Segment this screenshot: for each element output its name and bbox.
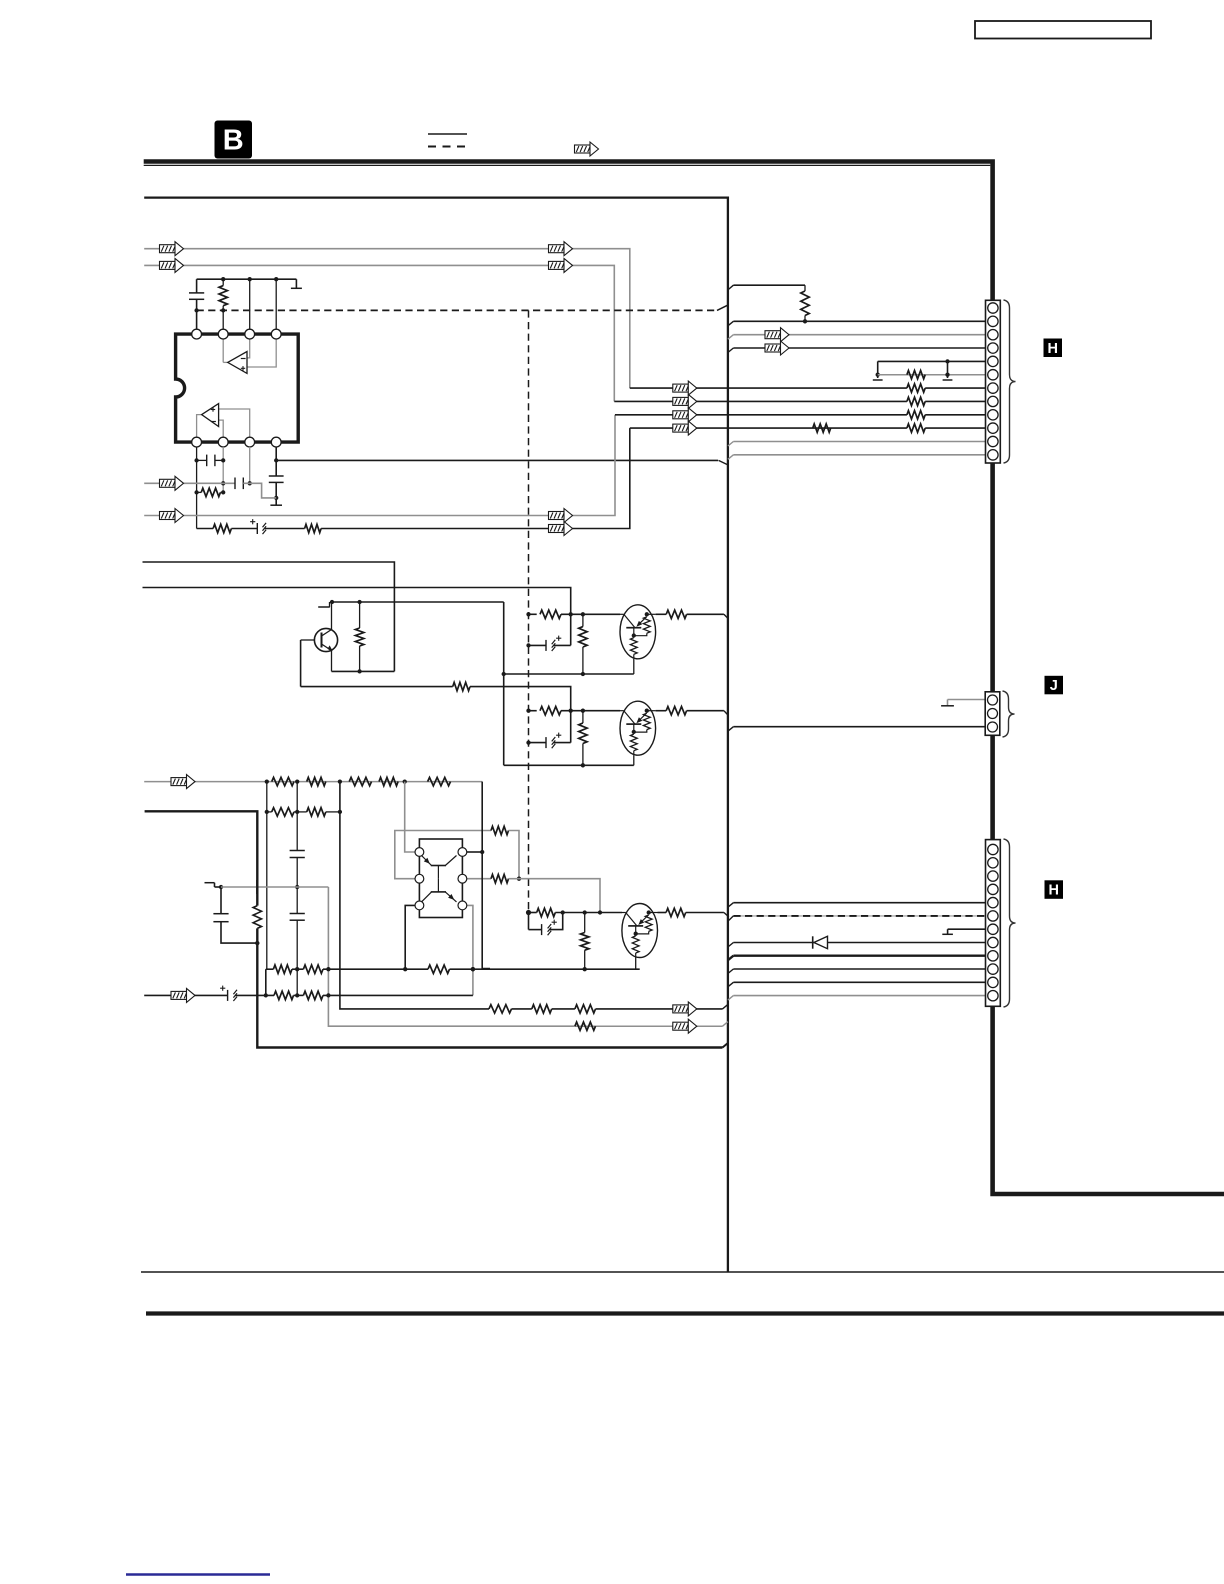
svg-text:B: B: [223, 125, 244, 157]
svg-text:H: H: [1048, 341, 1058, 357]
svg-text:H: H: [1049, 883, 1059, 899]
svg-text:J: J: [1050, 678, 1058, 694]
